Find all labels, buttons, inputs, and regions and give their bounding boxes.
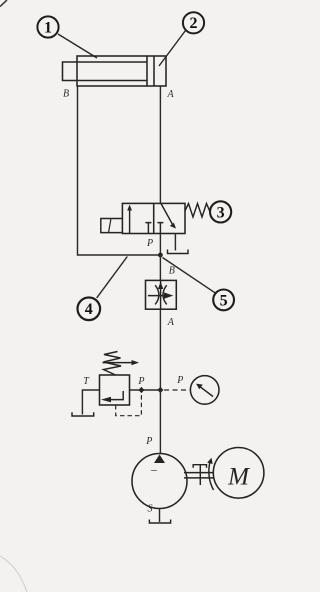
coupling bracket	[193, 465, 206, 485]
wire flow control to relief junction	[159, 309, 161, 390]
svg-text:P: P	[145, 436, 152, 447]
flow control throttle arcs	[155, 285, 159, 304]
valve T port wire	[174, 234, 176, 251]
node main line junction	[157, 387, 163, 393]
svg-text:P: P	[146, 238, 153, 249]
tank symbol (valve drain)	[168, 250, 189, 254]
svg-text:4: 4	[85, 301, 93, 318]
wire A: cylinder port A down to valve	[159, 86, 161, 203]
valve left-position flow arrow (P to A)	[129, 208, 131, 233]
manual actuator (push button)	[101, 219, 123, 233]
wire to pump	[159, 390, 161, 454]
cylinder barrel	[77, 56, 166, 86]
callout 5	[213, 290, 234, 311]
tank symbol (suction)	[149, 520, 170, 524]
flow control flow arrow	[148, 295, 165, 297]
tank symbol (relief drain)	[72, 412, 94, 416]
svg-text:S: S	[148, 504, 153, 515]
flow control valve F1 body	[146, 280, 177, 309]
callout 1	[37, 16, 58, 37]
svg-text:P: P	[137, 376, 144, 387]
svg-text:A: A	[167, 317, 175, 328]
callout leader 5	[163, 258, 216, 294]
flow control through line	[160, 280, 162, 309]
relief valve inlet wire	[130, 389, 161, 391]
svg-text:2: 2	[190, 15, 198, 32]
wire B: cylinder port B down and right to junction	[78, 86, 161, 255]
svg-text:3: 3	[217, 204, 225, 221]
relief valve R1 body	[100, 375, 130, 405]
callout leader 4	[97, 257, 128, 298]
flow control up arrowhead	[158, 282, 163, 289]
callout 4	[78, 298, 101, 321]
svg-text:1: 1	[44, 19, 52, 36]
cylinder rod	[63, 62, 148, 81]
spring adjustment arrow	[103, 362, 133, 364]
dashed wire to gauge	[164, 389, 190, 391]
svg-text:B: B	[63, 89, 69, 100]
drive shaft	[184, 472, 214, 474]
node pilot junction	[138, 387, 144, 393]
relief valve spring	[104, 352, 122, 376]
svg-text:P: P	[176, 375, 183, 386]
valve blocked port stub (left square)	[145, 223, 151, 234]
callout 2	[183, 12, 204, 33]
valve V1 body (3/2 directional valve)	[122, 203, 185, 233]
callout leader 1	[58, 34, 97, 58]
pilot line (dashed)	[116, 392, 142, 416]
cylinder piston	[146, 56, 148, 86]
valve return spring	[185, 204, 210, 218]
callout leader 2	[159, 31, 186, 67]
page corner mark	[0, 0, 7, 7]
valve blocked port stub (right square)	[157, 223, 163, 234]
svg-text:A: A	[166, 89, 174, 100]
pressure gauge G1	[190, 376, 219, 405]
valve diagonal flow arrow (A to T)	[161, 203, 173, 225]
suction wire	[159, 509, 161, 523]
valve P port wire	[159, 234, 161, 256]
motor M1	[213, 448, 264, 499]
wire junction to flow control valve	[159, 255, 161, 280]
junction node (P line / B line)	[158, 253, 163, 258]
svg-text:B: B	[169, 266, 175, 277]
relief valve internal arrow	[110, 391, 123, 400]
svg-text:5: 5	[220, 292, 228, 309]
relief valve outlet to tank	[82, 390, 99, 415]
pump P1	[132, 454, 187, 509]
page bottom-left curve	[0, 556, 27, 592]
rotation arrow	[209, 462, 214, 491]
svg-text:M: M	[227, 464, 250, 491]
callout 3	[210, 201, 231, 222]
